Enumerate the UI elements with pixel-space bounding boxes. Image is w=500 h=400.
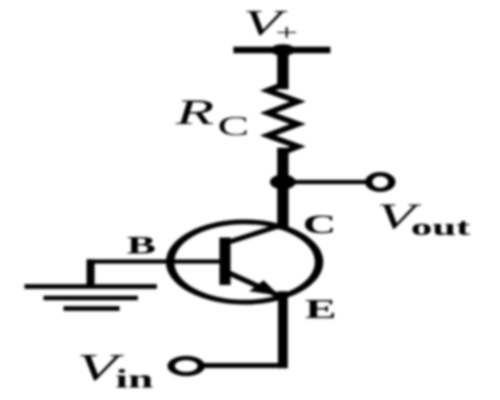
transistor base bar [219, 238, 230, 286]
svg-text:in: in [115, 365, 153, 394]
label R_C [174, 92, 249, 141]
wire ground stub [88, 262, 93, 286]
svg-text:C: C [303, 210, 336, 239]
wire collector [280, 182, 287, 226]
svg-text:out: out [411, 213, 471, 240]
label V+ [243, 3, 298, 46]
wire Vin horizontal [199, 363, 283, 368]
terminal Vin circle [171, 358, 201, 374]
node: output junction dot [270, 175, 296, 190]
resistor R_C [268, 85, 298, 153]
svg-text:+: + [275, 20, 298, 45]
terminal Vout circle [369, 174, 392, 190]
svg-text:E: E [305, 295, 336, 324]
ground symbol bar 1 [29, 284, 153, 289]
power rail V+ [233, 47, 330, 54]
wire resistor to output node [280, 151, 287, 182]
svg-text:R: R [174, 92, 214, 132]
wire base [91, 259, 221, 263]
label Vout [377, 196, 471, 240]
transistor emitter diagonal with arrow [229, 273, 276, 295]
wire output tap [283, 180, 364, 184]
svg-text:B: B [127, 231, 156, 259]
wire rail to resistor [280, 50, 287, 86]
label Vin [77, 346, 154, 394]
node: rail junction dot [271, 44, 295, 56]
transistor Q1 body circle [170, 222, 319, 302]
ground symbol bar 2 [47, 296, 134, 301]
ground symbol bar 3 [68, 306, 116, 311]
transistor collector diagonal [229, 225, 283, 243]
wire emitter vertical [280, 294, 286, 366]
transistor emitter arrowhead [249, 280, 279, 296]
svg-text:C: C [218, 112, 249, 141]
